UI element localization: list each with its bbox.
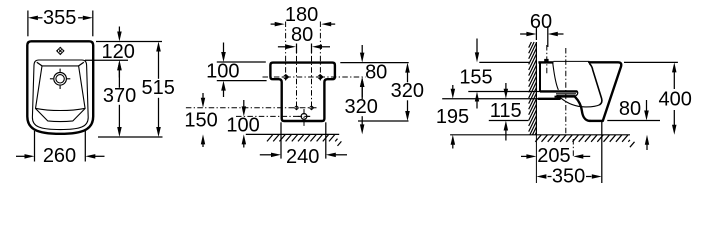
dim 120 arrow top: [117, 27, 122, 42]
dim 80 arrow left: [278, 45, 296, 50]
rim opening edge: [36, 66, 86, 122]
ref line top-left (back view): [217, 61, 266, 63]
dim 355 line+arrows: [28, 16, 93, 21]
dim 260 text: [43, 145, 76, 167]
dim 320 right line+arrows: [405, 63, 410, 121]
ref line bottom-right (back view): [358, 120, 409, 122]
centerline upper hole right: [319, 22, 321, 81]
ref line bottom (side view): [489, 120, 529, 122]
bidet body outline (plan view): [27, 41, 93, 134]
dim 260 extension line left: [34, 131, 36, 162]
centerline upper hole left: [285, 22, 287, 81]
bowl bottom curve: [561, 98, 600, 107]
svg-text:370: 370: [103, 85, 136, 107]
bowl front inner wall: [590, 64, 602, 105]
dim 240 arrows: [260, 153, 347, 158]
centerline horizontal lower holes: [186, 107, 317, 109]
svg-text:320: 320: [391, 80, 424, 102]
dim 370 text: [103, 85, 136, 107]
ref line bottom right (side view): [607, 120, 660, 122]
far rim edge line: [554, 60, 590, 62]
dim 320 left text: [345, 96, 378, 118]
centerline lower hole left: [296, 45, 298, 109]
upper fixing hole right: [317, 74, 324, 80]
centerline lower hole right: [311, 45, 313, 109]
dim 100 upper arrows: [221, 43, 226, 98]
svg-text:100: 100: [206, 60, 239, 82]
dim 120 text: [102, 41, 135, 63]
dim 195 arrows: [451, 85, 456, 149]
bidet back edge: [539, 62, 541, 92]
bottom reference line: [98, 136, 163, 138]
dim 150 arrows: [201, 93, 205, 147]
ref line shoulder-left: [217, 80, 267, 82]
bowl front underside: [575, 97, 590, 121]
svg-text:150: 150: [184, 110, 217, 132]
dim 205 text: [537, 145, 570, 167]
dim 205 arrows: [521, 154, 590, 159]
dim 100 upper text: [206, 60, 239, 82]
dim 80 ext right: [311, 44, 313, 54]
drain centerline: [565, 48, 567, 136]
dim 350 ext right: [601, 122, 603, 183]
svg-text:350: 350: [552, 166, 585, 188]
ref line underside (side view): [442, 98, 538, 100]
ref line top-right (back view): [340, 62, 408, 64]
dim 80 side arrows: [644, 100, 649, 150]
dim 515 text: [142, 77, 175, 99]
dim 80 right arrows: [360, 45, 365, 99]
dim 320 left line+arrows: [360, 77, 365, 134]
dim 80 right text: [365, 62, 387, 84]
dim 240 ext left: [280, 122, 282, 158]
fixing hole symbol: [56, 47, 65, 56]
bidet body outline (back view): [270, 63, 335, 121]
dim 320 right text: [391, 80, 424, 102]
bidet front slanted edge: [589, 62, 621, 121]
svg-text:260: 260: [43, 145, 76, 167]
svg-text:240: 240: [286, 146, 319, 168]
rim outer contour: [32, 60, 88, 130]
dim 240 text: [286, 146, 319, 168]
dim 115 arrows: [504, 83, 509, 141]
svg-text:60: 60: [530, 11, 552, 33]
svg-text:155: 155: [459, 66, 492, 88]
dim 260 arrow left: [16, 154, 35, 159]
basin chamfer top-right: [79, 62, 84, 66]
basin back curve: [553, 64, 558, 90]
svg-text:400: 400: [659, 88, 692, 110]
dim 60 text: [530, 11, 552, 33]
ground hatching (side view): [535, 135, 634, 147]
svg-text:515: 515: [142, 77, 175, 99]
dim 80 arrow right: [312, 45, 330, 50]
svg-text:80: 80: [365, 62, 387, 84]
dim 80 ext left: [296, 44, 298, 54]
svg-text:180: 180: [285, 4, 318, 26]
bidet top edge back (side view): [538, 61, 553, 63]
ref line top right (side view): [624, 61, 678, 63]
svg-text:115: 115: [490, 100, 522, 122]
dim 80 top text: [291, 24, 313, 46]
dim 60 arrows: [520, 32, 563, 36]
basin floor edge: [36, 108, 85, 110]
dim 400 line+arrows: [672, 62, 677, 134]
ground line (back view): [246, 133, 339, 135]
dim 195 text: [436, 106, 469, 128]
dim 355 text: [43, 7, 76, 29]
dim 180 arrow left: [271, 22, 285, 27]
dim 155 text: [459, 66, 492, 88]
dim 355 extension line left: [27, 11, 29, 37]
bidet underside back: [538, 97, 559, 99]
dim 115 text: [490, 100, 522, 122]
lower fixing hole left: [294, 105, 300, 110]
svg-text:80: 80: [619, 98, 641, 120]
bidet bottom edge (side view): [590, 120, 603, 122]
dim 180 arrow right: [321, 22, 335, 27]
ref line top (side view): [479, 61, 529, 63]
svg-text:355: 355: [43, 7, 76, 29]
dim 60 ext left: [535, 27, 537, 41]
centerline horizontal drain: [236, 115, 310, 117]
rim reference line: [85, 59, 128, 61]
tap hole: [50, 69, 70, 89]
svg-text:80: 80: [291, 24, 313, 46]
dim 260 arrow right: [85, 154, 104, 159]
dim 60 ext right: [547, 27, 549, 48]
top edge reference line: [96, 41, 162, 43]
centerline vertical drain: [303, 109, 305, 127]
wall face extension below: [535, 135, 537, 183]
centerline horizontal upper holes: [263, 76, 366, 78]
dim 120 arrow bottom: [117, 60, 122, 77]
dim 100 lower text: [226, 114, 259, 136]
fixing bolt block: [544, 59, 548, 62]
dim 155 arrows: [475, 39, 479, 109]
dim 80 side text: [619, 98, 641, 120]
dim 515 line+arrows: [156, 42, 161, 138]
upper fixing hole left: [282, 74, 289, 80]
wall hatching: [529, 42, 537, 135]
dim 260 extension line right: [84, 131, 86, 162]
drain hole: [298, 110, 310, 122]
dim 240 ext right: [325, 122, 327, 158]
dim 100 lower arrows: [242, 100, 247, 148]
basin chamfer top-left: [37, 62, 42, 66]
ground line (side view): [450, 134, 630, 136]
svg-text:195: 195: [436, 106, 469, 128]
dim 400 text: [659, 88, 692, 110]
dim 350 arrows: [536, 174, 601, 179]
lower fixing hole right: [309, 105, 315, 110]
svg-text:100: 100: [226, 114, 259, 136]
svg-text:120: 120: [102, 41, 135, 63]
dim 350 text: [552, 166, 585, 188]
dim 150 text: [184, 110, 217, 132]
dim 205 ext right: [572, 139, 574, 158]
dim 370 line+arrows: [117, 60, 122, 137]
wall face line: [535, 42, 537, 135]
dim 180 text: [285, 4, 318, 26]
svg-text:205: 205: [537, 145, 570, 167]
svg-text:320: 320: [345, 96, 378, 118]
ref line deck (side view): [468, 91, 540, 93]
fixing bolt centerline: [546, 45, 548, 75]
ground hatching (back view): [267, 134, 341, 146]
tap deck section: [540, 91, 578, 96]
dim 355 extension line right: [92, 11, 94, 37]
